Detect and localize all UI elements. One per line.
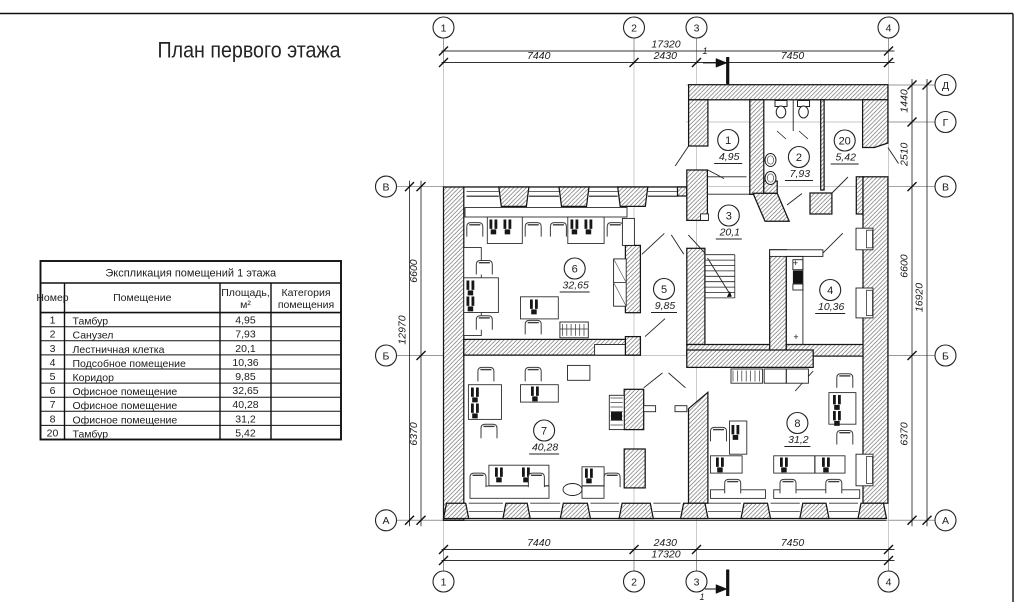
wall: flare south of partition bbox=[753, 193, 789, 221]
svg-text:Номер: Номер bbox=[36, 292, 68, 304]
left dimension line total 12970 bbox=[409, 181, 411, 527]
door corridor|room7 bbox=[645, 319, 665, 337]
pier white box above corridor bbox=[701, 214, 709, 221]
lintel line room1|room3 bbox=[708, 176, 747, 178]
svg-text:4,95: 4,95 bbox=[235, 315, 256, 327]
svg-text:А: А bbox=[942, 515, 949, 527]
axis bubble 1 bottom bbox=[433, 571, 454, 592]
room8 east desk bbox=[829, 393, 856, 425]
room6 center desk bbox=[521, 297, 559, 319]
axis bubble 3 bottom bbox=[686, 571, 707, 592]
room6 cabinet east bbox=[614, 259, 627, 306]
svg-text:2510: 2510 bbox=[899, 142, 911, 167]
svg-text:6370: 6370 bbox=[899, 422, 911, 446]
svg-text:4: 4 bbox=[50, 357, 56, 369]
svg-text:40,28: 40,28 bbox=[232, 399, 258, 411]
door room8 bbox=[795, 371, 813, 391]
wall: corridor west / room6 east bbox=[625, 245, 640, 312]
svg-text:3: 3 bbox=[694, 22, 700, 34]
room7 bottom chairs bbox=[470, 473, 486, 487]
svg-text:3: 3 bbox=[50, 343, 56, 355]
toilet 2 bbox=[798, 101, 810, 107]
svg-text:10,36: 10,36 bbox=[818, 301, 844, 313]
stall doors bbox=[777, 131, 786, 139]
svg-text:3: 3 bbox=[694, 576, 700, 588]
svg-text:Экспликация помещений 1 этажа: Экспликация помещений 1 этажа bbox=[105, 268, 277, 280]
axis bubble В left bbox=[376, 176, 397, 197]
door room1 exterior bbox=[675, 146, 688, 166]
svg-text:9,85: 9,85 bbox=[235, 371, 256, 383]
svg-text:7,93: 7,93 bbox=[790, 168, 811, 180]
svg-text:3: 3 bbox=[726, 210, 732, 222]
svg-text:А: А bbox=[382, 515, 389, 527]
room7 bookshelf bbox=[609, 395, 624, 429]
room6 top desk row bbox=[465, 208, 627, 218]
svg-text:2430: 2430 bbox=[653, 50, 678, 62]
svg-text:8: 8 bbox=[794, 418, 800, 430]
axis bubble 4 bottom bbox=[878, 571, 899, 592]
svg-text:1: 1 bbox=[441, 22, 447, 34]
svg-text:31,2: 31,2 bbox=[788, 434, 809, 446]
shaft outline bbox=[786, 256, 803, 344]
wall: corner pier NE room6 bbox=[678, 187, 687, 196]
svg-text:7450: 7450 bbox=[781, 50, 805, 62]
room8 bottom chairs bbox=[725, 479, 741, 493]
wall: window piers south bbox=[444, 503, 469, 518]
room 20 label bbox=[834, 130, 855, 151]
svg-text:2: 2 bbox=[631, 22, 637, 34]
window niche right wall 3 bbox=[856, 454, 873, 486]
bottom dimension line total 17320 bbox=[442, 560, 895, 562]
partition room3|shaft north bbox=[770, 250, 823, 257]
door corridor|room6 double bbox=[642, 233, 664, 254]
svg-text:1: 1 bbox=[699, 592, 704, 602]
svg-text:Помещение: Помещение bbox=[113, 292, 171, 304]
wall: Б wall rooms6|7 bbox=[464, 339, 641, 355]
svg-text:Офисное помещение: Офисное помещение bbox=[73, 400, 178, 412]
wall: top block right bbox=[863, 100, 888, 148]
svg-text:Лестничная клетка: Лестничная клетка bbox=[73, 344, 165, 356]
svg-text:Коридор: Коридор bbox=[73, 372, 115, 384]
window niche right wall 1 bbox=[856, 228, 873, 250]
axis grid lines horizontal bbox=[397, 186, 936, 188]
svg-text:В: В bbox=[942, 181, 949, 193]
right dimension line total 16920 bbox=[926, 79, 928, 526]
door room4 bbox=[823, 233, 843, 253]
svg-text:помещения: помещения bbox=[278, 299, 334, 311]
axis bubble Б left bbox=[376, 345, 397, 366]
wall: room2 south band bbox=[764, 181, 777, 193]
room6 left desks bbox=[464, 248, 482, 336]
wall: stair south bbox=[687, 345, 773, 357]
svg-text:4: 4 bbox=[886, 576, 892, 588]
room 8 label bbox=[787, 413, 808, 434]
svg-text:4: 4 bbox=[886, 22, 892, 34]
svg-text:5,42: 5,42 bbox=[835, 152, 856, 164]
room8 bookshelf north bbox=[731, 369, 763, 383]
svg-text:Офисное помещение: Офисное помещение bbox=[73, 386, 178, 398]
axis bubble 2 top bbox=[624, 17, 645, 38]
wall: partition room1|room2 bbox=[750, 100, 764, 195]
door room2 bbox=[787, 194, 802, 206]
wall: window piers north room6 bbox=[499, 187, 529, 206]
toilet stall partition bbox=[792, 100, 794, 131]
room8 west desk bbox=[730, 421, 747, 454]
top dimension line segments 7440 2430 7450 bbox=[442, 62, 895, 64]
svg-text:1: 1 bbox=[725, 135, 731, 147]
svg-text:5: 5 bbox=[50, 371, 56, 383]
stair arrow bbox=[708, 258, 731, 295]
room7 cabinet top bbox=[568, 365, 590, 380]
frame top border bbox=[0, 13, 1013, 15]
bottom dimension line segments 7440 2430 7450 bbox=[442, 549, 895, 551]
svg-text:1440: 1440 bbox=[899, 89, 911, 113]
room 1 label bbox=[718, 130, 739, 151]
room7 desk return strips bbox=[470, 486, 549, 498]
room 6 label bbox=[564, 258, 585, 279]
svg-text:Д: Д bbox=[942, 80, 949, 92]
axis bubble 2 bottom bbox=[624, 571, 645, 592]
sink 2 bbox=[765, 172, 776, 185]
window niche right wall 2 bbox=[856, 288, 873, 318]
svg-text:12970: 12970 bbox=[397, 315, 409, 344]
svg-text:7: 7 bbox=[541, 425, 547, 437]
axis bubble Д right bbox=[935, 75, 956, 96]
svg-text:м²: м² bbox=[240, 299, 251, 311]
door jamb marks hallway bbox=[644, 406, 656, 412]
svg-text:+: + bbox=[793, 258, 798, 268]
room8 cabinets north bbox=[764, 369, 786, 383]
axis bubble Г right bbox=[935, 112, 956, 133]
door room20 exterior bbox=[888, 148, 899, 164]
niche in Б wall bbox=[595, 345, 627, 356]
svg-text:Категория: Категория bbox=[281, 287, 330, 299]
axis bubble Б right bbox=[935, 345, 956, 366]
svg-text:1: 1 bbox=[50, 315, 56, 327]
svg-text:Тамбур: Тамбур bbox=[73, 428, 109, 440]
svg-text:20: 20 bbox=[47, 427, 59, 439]
wall: pier south of room2|20 bbox=[810, 193, 832, 214]
axis bubble 1 top bbox=[433, 17, 454, 38]
wall: corridor SW stub bbox=[625, 337, 640, 356]
axis bubble В right bbox=[935, 176, 956, 197]
section mark 1 top bbox=[726, 57, 729, 84]
room8 desk return strips bbox=[711, 490, 766, 499]
svg-text:7440: 7440 bbox=[527, 50, 551, 62]
wall: lower block left bbox=[444, 187, 464, 520]
wall: partition room2|room20 bbox=[821, 100, 824, 190]
svg-text:7450: 7450 bbox=[781, 537, 805, 549]
svg-text:+: + bbox=[793, 332, 798, 342]
room6 left chairs bbox=[476, 261, 492, 275]
door hallway double bbox=[644, 373, 663, 388]
door room20 south bbox=[832, 177, 848, 193]
sink 1 bbox=[765, 154, 776, 167]
wall: room4 south band bbox=[786, 345, 864, 357]
svg-text:17320: 17320 bbox=[651, 549, 680, 561]
wall: top block left bbox=[689, 100, 708, 146]
svg-text:1: 1 bbox=[702, 46, 707, 56]
wall: stair west bbox=[687, 248, 705, 344]
frame right border bbox=[1012, 14, 1014, 602]
room8 bottom desks bbox=[711, 456, 743, 473]
svg-text:Подсобное помещение: Подсобное помещение bbox=[73, 358, 187, 370]
svg-text:Площадь,: Площадь, bbox=[221, 287, 270, 299]
room7 top chairs bbox=[478, 367, 494, 381]
svg-text:Тамбур: Тамбур bbox=[73, 316, 109, 328]
svg-text:Офисное помещение: Офисное помещение bbox=[73, 414, 178, 426]
wall: top block outer band bbox=[689, 85, 888, 100]
room6 wardrobe NE bbox=[622, 218, 634, 245]
svg-text:6: 6 bbox=[572, 263, 578, 275]
explication table bbox=[36, 261, 341, 440]
svg-text:7440: 7440 bbox=[527, 537, 551, 549]
wall: right wall upper step bbox=[856, 177, 863, 214]
wall: hallway west upper bbox=[624, 389, 644, 429]
axis bubble 3 top bbox=[686, 17, 707, 38]
axis bubble А left bbox=[376, 510, 397, 531]
svg-text:2: 2 bbox=[631, 576, 637, 588]
svg-text:40,28: 40,28 bbox=[532, 442, 558, 454]
svg-text:2430: 2430 bbox=[653, 537, 678, 549]
wall: room8 north band bbox=[687, 350, 813, 367]
shaft electrical panel bbox=[793, 260, 803, 270]
svg-text:7,93: 7,93 bbox=[235, 329, 256, 341]
room 7 label bbox=[534, 420, 555, 441]
wall: hallway east bbox=[689, 392, 708, 503]
toilet 1 bbox=[775, 101, 787, 107]
svg-text:5,42: 5,42 bbox=[235, 427, 256, 439]
svg-text:17320: 17320 bbox=[651, 39, 680, 51]
door corridor|stair bbox=[688, 235, 704, 253]
room 4 label bbox=[820, 280, 841, 301]
svg-text:32,65: 32,65 bbox=[563, 280, 589, 292]
wall: stair east / room4 west divider bbox=[770, 250, 787, 356]
svg-text:7: 7 bbox=[50, 399, 56, 411]
room 5 label bbox=[654, 279, 675, 300]
room6 top chairs bbox=[467, 223, 483, 237]
svg-text:32,65: 32,65 bbox=[232, 385, 258, 397]
section mark 1 bottom bbox=[726, 570, 729, 597]
top dimension line total 17320 bbox=[442, 50, 895, 52]
svg-text:Б: Б bbox=[383, 350, 390, 362]
room7 bottom desks bbox=[489, 465, 549, 486]
svg-text:Г: Г bbox=[943, 117, 949, 129]
room7 top-center desk bbox=[521, 385, 559, 402]
axis bubble 4 top bbox=[878, 17, 899, 38]
wall: column west of room3 bbox=[687, 170, 708, 220]
svg-text:6: 6 bbox=[50, 385, 56, 397]
svg-text:5: 5 bbox=[661, 284, 667, 296]
axis bubble А right bbox=[935, 510, 956, 531]
svg-text:4: 4 bbox=[827, 285, 833, 297]
partition line room1 south bbox=[708, 193, 750, 195]
left dimension chain 6600 6370 bbox=[420, 181, 422, 527]
svg-text:6600: 6600 bbox=[899, 254, 911, 278]
svg-text:2: 2 bbox=[796, 152, 802, 164]
svg-text:10,36: 10,36 bbox=[232, 357, 258, 369]
svg-text:4,95: 4,95 bbox=[719, 151, 740, 163]
svg-text:Б: Б bbox=[942, 350, 949, 362]
stair flight bbox=[705, 255, 735, 298]
wall: hallway west lower bbox=[624, 449, 645, 488]
svg-text:20,1: 20,1 bbox=[235, 343, 256, 355]
svg-text:2: 2 bbox=[50, 329, 56, 341]
axis connector segments bbox=[443, 39, 445, 65]
svg-text:8: 8 bbox=[50, 413, 56, 425]
svg-text:План первого этажа: План первого этажа bbox=[158, 38, 341, 63]
svg-text:1: 1 bbox=[441, 576, 447, 588]
axis grid lines vertical bbox=[443, 39, 445, 572]
door room1|room3 bbox=[708, 170, 724, 179]
room7 top-left desk bbox=[468, 385, 501, 420]
room6 printer table bbox=[560, 322, 588, 338]
svg-text:20: 20 bbox=[839, 135, 851, 147]
svg-text:В: В bbox=[382, 181, 389, 193]
svg-text:31,2: 31,2 bbox=[235, 413, 256, 425]
svg-text:6370: 6370 bbox=[408, 422, 420, 446]
right dimension chain 1440 2510 6600 6370 bbox=[911, 79, 913, 526]
room 2 label bbox=[788, 147, 809, 168]
wall: lower block right bbox=[863, 177, 888, 503]
svg-text:6600: 6600 bbox=[408, 259, 420, 283]
svg-text:9,85: 9,85 bbox=[655, 300, 676, 312]
wall: north window band room6 bbox=[464, 186, 687, 188]
room7 round table bbox=[563, 484, 582, 496]
windows south band bbox=[469, 511, 503, 513]
room 3 label bbox=[718, 205, 739, 226]
svg-text:Санузел: Санузел bbox=[73, 330, 114, 342]
wall: south window band bbox=[444, 518, 887, 520]
svg-text:16920: 16920 bbox=[914, 283, 926, 312]
svg-text:20,1: 20,1 bbox=[719, 227, 740, 239]
